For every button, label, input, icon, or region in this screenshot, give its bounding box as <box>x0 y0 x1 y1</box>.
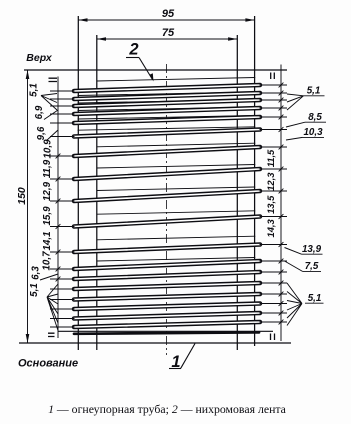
refractory tube outer wall right <box>254 16 256 346</box>
node right chain dimension line <box>280 65 282 342</box>
wire winding turn 1 of nichrome tape <box>72 83 261 92</box>
wire winding turn 7 of nichrome tape <box>72 145 261 157</box>
wire helix back edge 3 <box>78 100 256 104</box>
wire extension lines for turn 2 <box>50 91 287 99</box>
wire helix back edge 6 <box>78 127 256 130</box>
svg-text:9,6: 9,6 <box>36 126 47 140</box>
svg-text:5,1: 5,1 <box>307 86 321 97</box>
wire helix back edge 11 <box>97 236 255 240</box>
svg-text:6,9: 6,9 <box>34 105 45 119</box>
refractory tube inner wall left <box>96 35 98 350</box>
node equality tick bottom left <box>48 333 55 336</box>
svg-text:Верх: Верх <box>26 52 53 64</box>
wire extension lines for turn 14 <box>50 281 287 289</box>
wire extension lines for turn 4 <box>50 106 287 114</box>
wire extension lines for turn 3 <box>50 98 287 106</box>
svg-text:15,9: 15,9 <box>42 206 53 226</box>
wire extension lines for turn 6 <box>50 127 287 136</box>
svg-text:11,5: 11,5 <box>265 149 276 167</box>
wire extension lines for turn 16 <box>50 301 287 309</box>
svg-text:14,1: 14,1 <box>42 231 53 250</box>
wire helix back edge 8 <box>97 165 255 169</box>
wire helix back edge 12 <box>97 258 255 262</box>
node top reference line (Верх) <box>24 69 287 71</box>
wire winding turn 11 of nichrome tape <box>72 243 261 254</box>
value label 5,1 left bottom with leader fan <box>29 283 58 330</box>
wire helix back edge 4 <box>78 107 256 111</box>
wire extension lines for turn 18 <box>50 320 287 327</box>
value label 13,9 right with leader <box>285 244 323 255</box>
wire winding turn 10 of nichrome tape <box>72 215 261 228</box>
wire extension lines for turn 1 <box>50 83 287 91</box>
wire extension lines for turn 8 <box>50 167 287 182</box>
value label 7,5 right with leader <box>285 261 322 272</box>
dimension 75 line with arrows <box>97 37 238 41</box>
svg-text:14,3: 14,3 <box>265 218 276 237</box>
wire extension lines for turn 12 <box>50 259 287 272</box>
svg-text:10,3: 10,3 <box>303 127 323 138</box>
wire helix back edge 1 <box>97 78 255 82</box>
svg-text:5,1: 5,1 <box>308 293 322 304</box>
value label 6,9 left with leader <box>34 105 58 119</box>
refractory tube bottom edge <box>58 330 273 332</box>
wire extension lines for turn 15 <box>50 292 287 300</box>
svg-text:150: 150 <box>16 187 28 205</box>
value label 6,3 left with leader <box>31 266 59 280</box>
value label 5,1 right bottom with leader fan <box>287 283 324 326</box>
wire extension lines for turn 17 <box>50 311 287 319</box>
svg-text:1 — огнеупорная труба; 2 — них: 1 — огнеупорная труба; 2 — нихромовая ле… <box>48 402 287 416</box>
wire extension lines for turn 9 <box>50 189 287 204</box>
value label 10,3 right with leader <box>286 127 324 140</box>
refractory tube outer wall left <box>77 16 79 350</box>
dimension 150 line with arrows <box>26 70 30 343</box>
svg-text:11,9: 11,9 <box>42 159 53 178</box>
pin 1 callout (огнеупорная труба) <box>169 344 195 372</box>
wire winding turn 17 of nichrome tape <box>72 311 261 320</box>
wire winding turn 3 of nichrome tape <box>72 98 261 107</box>
wire winding turn 15 of nichrome tape <box>72 292 261 301</box>
svg-text:13,9: 13,9 <box>302 244 322 255</box>
wire helix back edge 7 <box>97 143 255 147</box>
svg-text:95: 95 <box>162 8 175 20</box>
svg-text:12,3: 12,3 <box>265 172 276 191</box>
value label 5,1 right top with leader fan <box>287 86 325 111</box>
refractory tube inner wall right <box>236 35 238 350</box>
wire helix back edge 10 <box>97 211 255 214</box>
node equality tick top left <box>49 78 58 81</box>
node equality tick top right <box>271 73 275 80</box>
svg-text:5,1: 5,1 <box>29 283 40 297</box>
svg-text:7,5: 7,5 <box>305 261 319 272</box>
wire winding turn 16 of nichrome tape <box>72 302 261 311</box>
wire winding turn 5 of nichrome tape <box>72 115 261 124</box>
svg-text:10,9: 10,9 <box>43 139 54 159</box>
svg-text:5,1: 5,1 <box>29 83 40 97</box>
value label 5,1 left top with leader fan <box>29 83 58 110</box>
wire extension lines for turn 13 <box>50 270 287 282</box>
wire winding turn 13 of nichrome tape <box>72 270 261 280</box>
wire winding turn 4 of nichrome tape <box>72 106 261 115</box>
node left chain dimension line <box>57 77 59 339</box>
node equality tick bottom right <box>271 334 275 341</box>
wire winding turn 12 of nichrome tape <box>72 259 261 270</box>
value label 8,5 right with leader <box>286 112 326 127</box>
svg-text:13,5: 13,5 <box>265 195 276 214</box>
wire extension lines for turn 7 <box>50 145 287 159</box>
value label 9,6 left with leader <box>36 126 58 141</box>
wire helix back edge 2 <box>78 92 256 96</box>
wire winding turn 2 of nichrome tape <box>72 91 261 100</box>
wire winding turn 9 of nichrome tape <box>72 189 261 202</box>
svg-text:8,5: 8,5 <box>308 112 322 123</box>
svg-text:Основание: Основание <box>18 358 78 370</box>
svg-text:6,3: 6,3 <box>31 266 42 280</box>
node tube axis center line <box>166 64 168 355</box>
wire helix back edge 5 <box>78 116 256 120</box>
dimension 95 line with arrows <box>78 18 254 22</box>
svg-text:75: 75 <box>162 27 175 39</box>
wire extension lines for turn 10 <box>50 214 287 229</box>
pin 2 callout (нихромовая лента) <box>126 41 154 82</box>
wire extension lines for turn 11 <box>50 242 287 254</box>
wire winding turn 6 of nichrome tape <box>72 128 261 138</box>
svg-text:12,9: 12,9 <box>42 181 53 201</box>
wire winding turn 18 of nichrome tape <box>72 320 261 328</box>
svg-text:2: 2 <box>128 41 138 59</box>
wire winding turn 14 of nichrome tape <box>72 281 261 290</box>
node bottom reference line (Основание) <box>19 342 291 344</box>
wire extension lines for turn 5 <box>50 115 287 123</box>
wire winding turn 8 of nichrome tape <box>72 167 261 180</box>
wire helix back edge 9 <box>97 187 255 191</box>
svg-text:10,7: 10,7 <box>42 251 53 271</box>
